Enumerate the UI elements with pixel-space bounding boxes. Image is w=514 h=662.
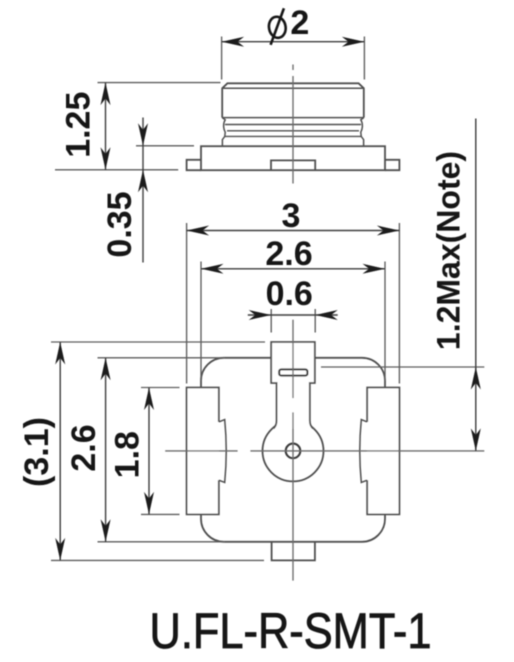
svg-text:2.6: 2.6 [265, 235, 312, 273]
connector neck grooves (side view) [222, 118, 364, 147]
connector barrel (side view) [222, 83, 364, 117]
dimension phi-2 [222, 4, 365, 80]
dimension 0.6 (tab width) [248, 275, 338, 333]
bottom tab [272, 542, 315, 561]
footprint horizontal centerline [165, 450, 484, 452]
dimension 1.2Max(Note) [321, 119, 484, 451]
svg-text:2.6: 2.6 [65, 424, 103, 471]
dimension (3.1) overall height [18, 342, 265, 560]
side view centerline [292, 65, 294, 184]
svg-text:1.8: 1.8 [109, 431, 147, 478]
right solder pad [367, 388, 399, 515]
svg-text:3: 3 [282, 197, 301, 235]
footprint vertical centerline [292, 320, 294, 581]
contact slot in top tab [279, 369, 307, 375]
left pad spring arm [219, 420, 226, 483]
dimension 0.35 [101, 118, 194, 263]
right mounting tab (side view) [385, 160, 399, 170]
dimension 2.6 (body width) [201, 235, 385, 381]
dimension 1.8 (pad height) [109, 388, 180, 515]
left mounting tab (side view) [187, 160, 201, 170]
svg-text:(3.1): (3.1) [18, 417, 56, 487]
svg-text:U.FL-R-SMT-1: U.FL-R-SMT-1 [150, 603, 432, 659]
center contact tab (side view) [271, 160, 315, 170]
svg-text:1.25: 1.25 [60, 92, 98, 158]
svg-text:0.6: 0.6 [266, 275, 313, 313]
svg-text:0.35: 0.35 [101, 191, 139, 257]
right pad spring arm [360, 420, 367, 483]
dimension 3 (overall width) [187, 197, 400, 384]
dimension 2.6 (body height) [65, 358, 225, 542]
body outline (rounded square) [201, 358, 385, 542]
connector flange (side view) [201, 146, 385, 170]
center hole [286, 444, 301, 459]
center contact circle [263, 420, 324, 481]
left solder pad [187, 388, 219, 515]
svg-text:1.2Max(Note): 1.2Max(Note) [431, 151, 467, 350]
top tab and contact stem [271, 342, 315, 428]
svg-text:2: 2 [290, 4, 309, 42]
dimension 1.25 [55, 83, 221, 170]
